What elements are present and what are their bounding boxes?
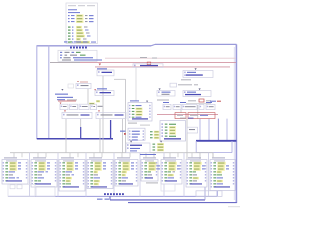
wire right verticals to bus xyxy=(200,119,227,141)
wire dark bus horizontal xyxy=(37,138,113,140)
lut block N1 xyxy=(126,143,150,153)
wire harness bus xyxy=(10,153,213,158)
tiny boxes Q4 xyxy=(10,185,22,189)
lut column K3 xyxy=(128,128,145,140)
logic block P1 xyxy=(2,160,28,185)
small box L2 xyxy=(187,127,198,133)
wire inner bottom xyxy=(8,191,217,196)
header label P5 xyxy=(117,157,130,158)
mux A1 xyxy=(133,64,163,68)
small box C1 xyxy=(76,83,91,88)
arrow N4 xyxy=(130,141,132,143)
header label P2 xyxy=(33,157,46,158)
net label green F2 xyxy=(136,103,146,104)
wire block separators xyxy=(30,153,209,197)
wire gray vertical x88 xyxy=(87,89,89,105)
instance info box xyxy=(58,50,102,61)
net label above ff B1 xyxy=(97,68,107,69)
mux H1 xyxy=(157,91,175,97)
header label P6 xyxy=(143,157,156,158)
net gray under I1 xyxy=(157,99,211,103)
red box J2 xyxy=(188,113,215,119)
reg box R2 xyxy=(183,71,213,78)
red box J1 xyxy=(175,113,186,119)
arrow red ff B1 xyxy=(99,64,101,66)
arrow above R2 xyxy=(195,68,197,70)
net labels above register row L xyxy=(57,99,77,100)
logic block P3 xyxy=(59,160,85,192)
logic block P5 xyxy=(115,160,138,187)
wide register pair xyxy=(62,110,126,118)
net label above ff E1 xyxy=(97,88,107,89)
register row right xyxy=(163,104,215,109)
empty box Q5 xyxy=(161,184,175,191)
net label N3 xyxy=(140,154,156,155)
empty box Q1 xyxy=(8,184,35,196)
wire bottom frame xyxy=(128,202,237,204)
gray text under K1 xyxy=(128,123,150,126)
wire right frame xyxy=(234,44,236,203)
parameter table panel xyxy=(66,3,98,44)
wire blue vertical xyxy=(81,119,111,139)
net pink horizontal right xyxy=(157,114,218,116)
arrow dark G3 xyxy=(199,88,201,90)
net gray-pink horizontal xyxy=(50,58,236,62)
arrow dark C3 xyxy=(61,89,63,91)
wire top frame xyxy=(37,44,237,45)
logic block P7 xyxy=(161,160,182,185)
wire gray vertical x136 xyxy=(135,67,137,101)
tiny box G1 xyxy=(170,83,198,87)
logic block P4 xyxy=(87,160,113,189)
net red marks upper xyxy=(77,81,88,82)
header label P7 xyxy=(163,157,176,158)
logic block P2 xyxy=(31,160,57,188)
wire right under-bus box xyxy=(196,141,232,157)
wire gray vertical x100 xyxy=(99,119,101,153)
wire bus2 bottom xyxy=(110,187,205,200)
tiny box C2 xyxy=(68,84,74,88)
pin markers top bus xyxy=(70,47,87,49)
net label M1 xyxy=(120,131,126,135)
header label P8 xyxy=(188,157,201,158)
label above K1 xyxy=(130,100,148,102)
net label green F1 xyxy=(89,100,100,105)
arrow N5 xyxy=(160,141,162,143)
net label line D2 xyxy=(57,97,73,98)
red marker on net A1 xyxy=(147,62,151,65)
wire right thick bus xyxy=(196,140,236,142)
wire gray vertical x66 xyxy=(65,119,67,153)
lut texture N2 xyxy=(153,143,165,151)
wire gray vertical x103 xyxy=(102,76,104,153)
flipflop B1 xyxy=(97,70,114,76)
empty box Q2 xyxy=(36,186,55,196)
wire left vertical B xyxy=(48,46,50,139)
header label P1 xyxy=(4,157,17,158)
logic block P9 xyxy=(210,160,235,191)
arrow dark G2 xyxy=(159,88,161,90)
wire gray vertical x187 xyxy=(186,119,188,159)
flipflop E1 xyxy=(95,91,114,96)
logic block P8 xyxy=(186,160,207,188)
net red stub mid-left xyxy=(58,101,76,104)
footer faint text xyxy=(228,206,240,207)
lut texture K4 xyxy=(150,131,159,139)
empty box Q3 xyxy=(196,191,222,197)
gray text below R2 xyxy=(181,79,191,80)
header label P9 xyxy=(212,157,225,158)
header label P3 xyxy=(61,157,74,158)
ram block L1 xyxy=(160,121,186,141)
wire gray vertical x200 xyxy=(199,153,201,159)
net labels above top frame xyxy=(64,41,88,50)
wire left vertical A xyxy=(36,46,38,139)
logic block P6 xyxy=(141,160,160,182)
wire gray vertical x181 xyxy=(180,110,182,113)
reg I1 xyxy=(183,91,211,97)
header label P4 xyxy=(89,157,102,158)
net label right of J1 xyxy=(180,118,194,119)
net labels above register row R xyxy=(163,101,221,103)
pin markers bottom bus xyxy=(104,193,124,195)
register row left xyxy=(60,104,103,109)
net label R1 xyxy=(97,199,109,200)
text below B6 xyxy=(146,182,158,183)
arrow red ff E1 xyxy=(94,89,96,91)
wire L3 vertical xyxy=(197,105,199,119)
lut column K1 xyxy=(128,103,152,121)
wire elbow x125 xyxy=(114,79,126,152)
net label line D1 xyxy=(55,94,68,95)
gray labels above mux A1 xyxy=(140,57,157,59)
net pink horizontal 2 xyxy=(95,66,230,68)
